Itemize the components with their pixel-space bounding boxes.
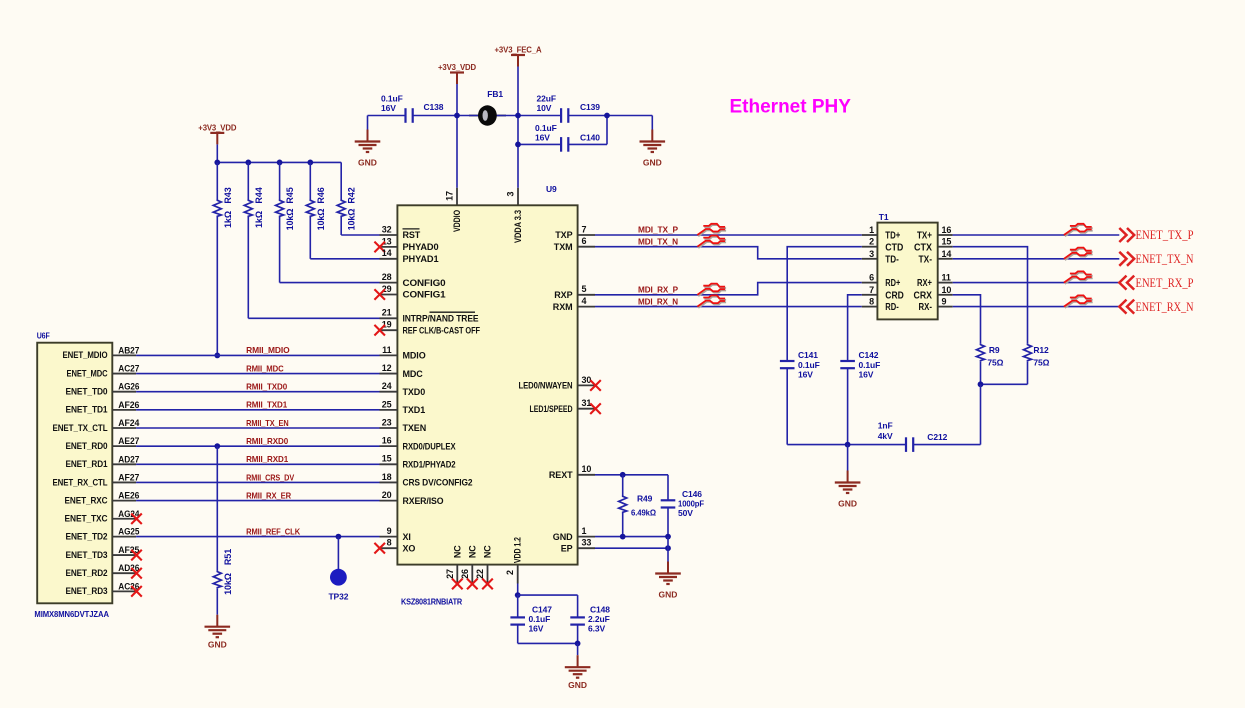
svg-text:7: 7 — [582, 224, 587, 234]
svg-text:1kΩ: 1kΩ — [254, 211, 264, 228]
svg-text:GND: GND — [553, 532, 573, 542]
svg-text:32: 32 — [382, 224, 392, 234]
svg-text:R44: R44 — [254, 187, 264, 203]
svg-text:CONFIG0: CONFIG0 — [403, 278, 446, 288]
svg-text:ENET_TXC: ENET_TXC — [65, 514, 109, 524]
svg-text:R46: R46 — [316, 187, 326, 203]
svg-text:TXD1: TXD1 — [403, 405, 426, 415]
svg-text:ENET_RD2: ENET_RD2 — [66, 568, 108, 578]
svg-text:18: 18 — [382, 472, 392, 482]
svg-text:0.1uF: 0.1uF — [535, 123, 557, 133]
svg-text:RMII_MDC: RMII_MDC — [246, 363, 284, 373]
svg-text:TXEN: TXEN — [403, 423, 427, 433]
svg-text:RMII_TXD1: RMII_TXD1 — [246, 400, 287, 410]
svg-text:16V: 16V — [859, 370, 874, 380]
svg-text:5: 5 — [582, 284, 587, 294]
svg-text:9: 9 — [387, 526, 392, 536]
svg-text:RMII_RXD1: RMII_RXD1 — [246, 454, 288, 464]
svg-text:LED1/SPEED: LED1/SPEED — [530, 404, 573, 414]
svg-text:+3V3_VDD: +3V3_VDD — [438, 62, 476, 72]
svg-text:22uF: 22uF — [537, 94, 556, 104]
svg-text:TP32: TP32 — [328, 592, 348, 602]
svg-text:ENET_RX_N: ENET_RX_N — [1136, 299, 1194, 314]
svg-text:ENET_RD3: ENET_RD3 — [66, 586, 108, 596]
svg-text:RMII_CRS_DV: RMII_CRS_DV — [246, 472, 294, 482]
svg-text:17: 17 — [445, 191, 455, 201]
svg-text:2: 2 — [505, 570, 515, 575]
svg-text:REF CLK/B-CAST OFF: REF CLK/B-CAST OFF — [403, 325, 481, 335]
svg-text:12: 12 — [382, 363, 392, 373]
svg-text:+3V3_FEC_A: +3V3_FEC_A — [495, 45, 542, 55]
svg-text:T1: T1 — [879, 212, 889, 222]
svg-text:C146: C146 — [682, 489, 702, 499]
svg-text:ENET_TD2: ENET_TD2 — [66, 531, 108, 541]
svg-text:RX+: RX+ — [917, 278, 932, 289]
svg-text:GND: GND — [659, 590, 678, 600]
svg-text:CRD: CRD — [885, 290, 904, 301]
svg-text:0.1uF: 0.1uF — [798, 360, 820, 370]
svg-text:15: 15 — [382, 454, 392, 464]
svg-text:27: 27 — [445, 569, 455, 579]
svg-text:4: 4 — [582, 296, 587, 306]
svg-text:R45: R45 — [285, 187, 295, 203]
svg-text:AD27: AD27 — [118, 454, 139, 464]
svg-text:AC27: AC27 — [118, 364, 139, 374]
svg-text:TD-: TD- — [885, 254, 899, 265]
svg-text:8: 8 — [869, 297, 874, 307]
svg-text:0.1uF: 0.1uF — [859, 360, 881, 370]
svg-text:10kΩ: 10kΩ — [285, 209, 295, 231]
svg-text:MDI_RX_N: MDI_RX_N — [638, 296, 678, 306]
svg-text:LED0/NWAYEN: LED0/NWAYEN — [519, 381, 573, 391]
svg-text:C142: C142 — [859, 350, 879, 360]
svg-text:VDDA 3.3: VDDA 3.3 — [513, 210, 523, 243]
svg-text:ENET_RD1: ENET_RD1 — [66, 459, 108, 469]
svg-text:R42: R42 — [347, 187, 357, 203]
svg-text:ENET_TD1: ENET_TD1 — [66, 405, 108, 415]
svg-text:AE27: AE27 — [118, 436, 139, 446]
svg-text:22: 22 — [475, 569, 485, 579]
svg-text:RXD1/PHYAD2: RXD1/PHYAD2 — [403, 460, 456, 470]
svg-text:VDDIO: VDDIO — [452, 210, 462, 232]
svg-text:25: 25 — [382, 399, 392, 409]
svg-text:14: 14 — [942, 249, 952, 259]
svg-text:RMII_REF_CLK: RMII_REF_CLK — [246, 526, 301, 536]
svg-text:16V: 16V — [381, 103, 396, 113]
svg-text:ENET_TX_P: ENET_TX_P — [1136, 227, 1194, 242]
svg-text:C140: C140 — [580, 133, 600, 143]
svg-text:TXM: TXM — [554, 242, 573, 252]
svg-text:C212: C212 — [927, 432, 947, 442]
svg-text:ENET_TX_N: ENET_TX_N — [1136, 251, 1194, 266]
svg-text:ENET_TD3: ENET_TD3 — [66, 550, 108, 560]
svg-text:CTX: CTX — [914, 242, 932, 253]
svg-text:+3V3_VDD: +3V3_VDD — [198, 122, 236, 132]
svg-text:AG25: AG25 — [118, 527, 139, 537]
svg-text:50V: 50V — [678, 508, 693, 518]
svg-text:XO: XO — [403, 543, 416, 553]
svg-text:ENET_TX_CTL: ENET_TX_CTL — [53, 423, 109, 433]
svg-text:TXP: TXP — [555, 230, 572, 240]
svg-text:ENET_RX_CTL: ENET_RX_CTL — [53, 477, 109, 487]
svg-text:GND: GND — [643, 158, 662, 168]
svg-text:CTD: CTD — [885, 242, 903, 253]
svg-text:INTRP/NAND TREE: INTRP/NAND TREE — [403, 314, 479, 324]
svg-text:ENET_RD0: ENET_RD0 — [66, 441, 108, 451]
svg-text:TX+: TX+ — [917, 231, 932, 242]
svg-text:R43: R43 — [223, 187, 233, 203]
svg-text:Ethernet PHY: Ethernet PHY — [730, 97, 852, 118]
svg-text:CRX: CRX — [914, 290, 933, 301]
svg-text:TX-: TX- — [919, 254, 933, 265]
svg-text:15: 15 — [942, 237, 952, 247]
svg-text:AG26: AG26 — [118, 382, 139, 392]
svg-text:1: 1 — [869, 225, 874, 235]
svg-text:9: 9 — [942, 297, 947, 307]
svg-text:3: 3 — [869, 249, 874, 259]
svg-text:PHYAD0: PHYAD0 — [403, 242, 439, 252]
svg-text:2.2uF: 2.2uF — [588, 614, 610, 624]
svg-text:RXER/ISO: RXER/ISO — [403, 496, 444, 506]
svg-text:RMII_TX_EN: RMII_TX_EN — [246, 418, 289, 428]
svg-text:8: 8 — [387, 538, 392, 548]
svg-text:24: 24 — [382, 381, 392, 391]
svg-text:1: 1 — [582, 526, 587, 536]
svg-text:10V: 10V — [537, 103, 552, 113]
svg-text:6.3V: 6.3V — [588, 624, 606, 634]
svg-text:REXT: REXT — [549, 470, 573, 480]
svg-text:NC: NC — [467, 545, 477, 558]
svg-text:TD+: TD+ — [885, 231, 900, 242]
svg-text:ENET_RX_P: ENET_RX_P — [1136, 275, 1194, 290]
svg-text:23: 23 — [382, 417, 392, 427]
svg-text:10kΩ: 10kΩ — [347, 209, 357, 231]
svg-text:GND: GND — [358, 158, 377, 168]
svg-text:16: 16 — [942, 225, 952, 235]
svg-text:C139: C139 — [580, 102, 600, 112]
svg-text:20: 20 — [382, 490, 392, 500]
svg-text:C148: C148 — [590, 605, 610, 615]
svg-text:C141: C141 — [798, 350, 818, 360]
svg-text:4kV: 4kV — [878, 431, 893, 441]
svg-text:75Ω: 75Ω — [987, 358, 1003, 368]
svg-text:RXM: RXM — [553, 302, 573, 312]
svg-text:7: 7 — [869, 285, 874, 295]
svg-text:11: 11 — [942, 273, 951, 283]
svg-text:1000pF: 1000pF — [678, 499, 704, 509]
svg-text:28: 28 — [382, 272, 392, 282]
svg-text:10kΩ: 10kΩ — [223, 573, 233, 595]
svg-text:RX-: RX- — [919, 302, 933, 313]
svg-text:6: 6 — [869, 273, 874, 283]
svg-text:0.1uF: 0.1uF — [529, 614, 551, 624]
svg-text:RST: RST — [403, 230, 421, 240]
svg-text:MDI_TX_N: MDI_TX_N — [638, 236, 678, 246]
svg-text:ENET_RXC: ENET_RXC — [65, 495, 109, 505]
svg-text:R9: R9 — [989, 345, 1000, 355]
svg-text:GND: GND — [838, 499, 857, 509]
svg-text:2: 2 — [869, 237, 874, 247]
svg-text:XI: XI — [403, 532, 411, 542]
svg-text:RD-: RD- — [885, 302, 899, 313]
svg-text:16V: 16V — [535, 133, 550, 143]
svg-text:AF26: AF26 — [118, 400, 139, 410]
svg-text:MDI_RX_P: MDI_RX_P — [638, 285, 678, 295]
svg-text:U9: U9 — [546, 184, 557, 194]
svg-text:ENET_TD0: ENET_TD0 — [66, 387, 108, 397]
svg-text:C138: C138 — [424, 102, 444, 112]
svg-text:TXD0: TXD0 — [403, 387, 426, 397]
svg-text:C147: C147 — [532, 605, 552, 615]
svg-text:21: 21 — [382, 308, 392, 318]
svg-text:CRS DV/CONFIG2: CRS DV/CONFIG2 — [403, 478, 473, 488]
svg-text:MDIO: MDIO — [403, 351, 426, 361]
svg-text:16: 16 — [382, 436, 392, 446]
svg-text:AE26: AE26 — [118, 491, 139, 501]
svg-text:R51: R51 — [223, 549, 233, 565]
svg-text:GND: GND — [208, 640, 227, 650]
svg-text:AF24: AF24 — [118, 418, 139, 428]
svg-text:KSZ8081RNBIATR: KSZ8081RNBIATR — [401, 598, 462, 607]
svg-text:RMII_TXD0: RMII_TXD0 — [246, 382, 287, 392]
svg-text:NC: NC — [483, 545, 493, 558]
svg-text:10kΩ: 10kΩ — [316, 209, 326, 231]
svg-text:3: 3 — [506, 191, 516, 196]
svg-text:RMII_RX_ER: RMII_RX_ER — [246, 490, 291, 500]
svg-text:RMII_MDIO: RMII_MDIO — [246, 345, 290, 355]
svg-text:CONFIG1: CONFIG1 — [403, 290, 446, 300]
svg-text:MDI_TX_P: MDI_TX_P — [638, 225, 678, 235]
svg-text:10: 10 — [942, 285, 952, 295]
svg-text:33: 33 — [582, 538, 592, 548]
svg-text:R12: R12 — [1033, 345, 1049, 355]
svg-text:1nF: 1nF — [878, 420, 893, 430]
svg-text:RXD0/DUPLEX: RXD0/DUPLEX — [403, 441, 456, 451]
svg-text:FB1: FB1 — [487, 89, 503, 99]
svg-text:EP: EP — [561, 543, 573, 553]
svg-text:14: 14 — [382, 248, 392, 258]
svg-text:PHYAD1: PHYAD1 — [403, 254, 439, 264]
svg-text:11: 11 — [382, 345, 391, 355]
svg-text:6: 6 — [582, 236, 587, 246]
svg-text:0.1uF: 0.1uF — [381, 94, 403, 104]
svg-text:VDD 1.2: VDD 1.2 — [513, 537, 523, 563]
svg-text:16V: 16V — [529, 624, 544, 634]
svg-text:16V: 16V — [798, 370, 813, 380]
svg-text:AF27: AF27 — [118, 472, 139, 482]
svg-text:NC: NC — [452, 545, 462, 558]
svg-text:RD+: RD+ — [885, 278, 900, 289]
svg-text:31: 31 — [582, 398, 592, 408]
svg-text:10: 10 — [582, 464, 592, 474]
svg-text:R49: R49 — [637, 494, 653, 504]
svg-text:RXP: RXP — [554, 290, 572, 300]
svg-text:MDC: MDC — [403, 369, 424, 379]
svg-text:U6F: U6F — [37, 331, 50, 341]
svg-text:AB27: AB27 — [118, 345, 139, 355]
svg-text:26: 26 — [460, 569, 470, 579]
svg-text:1kΩ: 1kΩ — [223, 211, 233, 228]
svg-text:ENET_MDIO: ENET_MDIO — [63, 350, 108, 360]
svg-text:75Ω: 75Ω — [1033, 358, 1049, 368]
svg-text:30: 30 — [582, 375, 592, 385]
svg-text:GND: GND — [568, 680, 587, 690]
svg-text:RMII_RXD0: RMII_RXD0 — [246, 436, 288, 446]
svg-text:MIMX8MN6DVTJZAA: MIMX8MN6DVTJZAA — [34, 609, 109, 619]
svg-text:ENET_MDC: ENET_MDC — [67, 368, 108, 378]
svg-text:6.49kΩ: 6.49kΩ — [631, 508, 656, 518]
